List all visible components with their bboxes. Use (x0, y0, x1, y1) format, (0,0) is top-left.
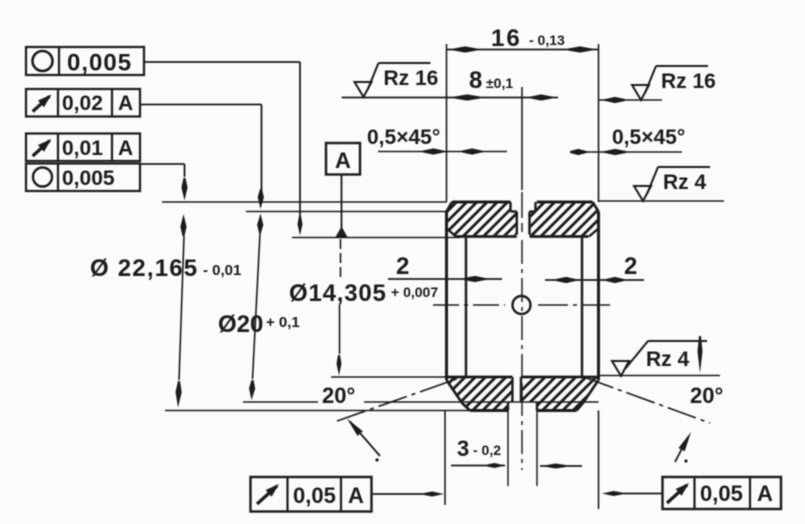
svg-text:2: 2 (624, 253, 637, 280)
svg-text:A: A (118, 137, 133, 160)
svg-text:8: 8 (469, 67, 482, 94)
surface roughness Rz 4 (upper right) (634, 186, 651, 201)
extension line left face (bottom) (444, 411, 446, 506)
leader bottom-right frame (622, 493, 663, 495)
bottom recess walls (507, 402, 509, 411)
vertical centerline (521, 192, 523, 232)
inner wall right x=582 (581, 237, 583, 378)
svg-text:A: A (118, 92, 133, 115)
centre circle (513, 296, 531, 314)
svg-text:20°: 20° (690, 383, 723, 408)
extension line recess bottom y=402 to left (243, 401, 318, 403)
section hatching (383, 185, 637, 245)
inner wall left x=466 (465, 237, 467, 378)
extension line right face (top) (598, 44, 600, 202)
chamfer 0.5x45 top-right (593, 202, 599, 212)
extension line left face (top) (446, 44, 448, 202)
leader F3/F4 joining diameter-22.165 dimension line (141, 163, 185, 165)
bottom face (470, 409, 508, 412)
20deg taper line right (585, 378, 710, 424)
top slot wall left x=516.8 (516, 212, 518, 235)
leader F2 joining diameter-20 dimension line (140, 104, 262, 106)
bore bottom line y=377 (447, 376, 513, 379)
bottom chamfer 20deg right (583, 380, 599, 403)
svg-text:0,05: 0,05 (293, 483, 336, 508)
svg-text:±0,1: ±0,1 (486, 75, 513, 91)
feature control frame bottom-right (runout 0,05 A) (663, 477, 782, 509)
surface roughness Rz 16 (right) (599, 99, 662, 101)
dimension 8 plus-minus 0.1 (342, 97, 558, 99)
svg-text:Rz 4: Rz 4 (646, 348, 690, 371)
svg-text:0,005: 0,005 (67, 50, 132, 77)
extension line slot walls for 3-0.2 (507, 402, 509, 486)
horizontal centerline left (433, 304, 505, 306)
surface roughness Rz 16 (left) (355, 82, 372, 97)
bore entrance chamfer top-left (447, 229, 457, 237)
dimension 16-0.13 (447, 49, 599, 51)
feature control frame F1 (circularity 0,005) (26, 47, 144, 75)
svg-text:+ 0,007: + 0,007 (391, 284, 438, 300)
extension line right face (bottom) (598, 411, 600, 510)
bottom recess floor y=402 across band (447, 401, 599, 403)
top recess wall left x=510.5 (509, 202, 511, 212)
bottom slot walls (511, 377, 513, 402)
feature control frame F3 (runout 0,01 A) (26, 134, 140, 162)
svg-text:0,5×45°: 0,5×45° (612, 126, 685, 149)
top recess wall right x=535.5 (534, 202, 536, 212)
datum A box (326, 143, 360, 175)
datum A leader and triangle (341, 175, 343, 229)
svg-text:+ 0,1: + 0,1 (266, 314, 300, 331)
bore top line y=236.5 (455, 235, 517, 238)
extension line top face y=202 to left (162, 201, 447, 203)
top recess floor y=211.5 (511, 210, 517, 212)
extension line bottom face y=410.5 to left (165, 410, 470, 412)
svg-text:Rz 4: Rz 4 (663, 171, 707, 194)
20deg leader arrow right (675, 437, 688, 462)
svg-text:3: 3 (457, 436, 469, 461)
svg-text:0,5×45°: 0,5×45° (367, 126, 440, 149)
extension line bore top y=236.5 to left (292, 237, 460, 239)
svg-text:Ø14,305: Ø14,305 (289, 280, 387, 307)
svg-text:Rz 16: Rz 16 (661, 70, 716, 93)
svg-text:- 0,01: - 0,01 (203, 262, 241, 279)
part top face left segment (452, 201, 511, 204)
extension line slot centre x=522 (top) (521, 87, 523, 190)
svg-text:0,02: 0,02 (62, 92, 103, 115)
svg-text:A: A (335, 148, 351, 173)
20deg taper line left (337, 379, 458, 422)
right face (597, 212, 600, 381)
top slot wall right x=529.5 (528, 212, 530, 235)
svg-text:- 0,2: - 0,2 (473, 442, 501, 458)
20deg leader arrow left (350, 422, 380, 457)
leader F1 to bore line (144, 61, 300, 63)
svg-text:A: A (348, 483, 364, 508)
surface roughness Rz 4 (lower right) (612, 361, 629, 376)
left face (445, 212, 448, 381)
chamfer 0.5x45 top-left (447, 202, 453, 212)
feature control frame F2 (runout 0,02 A) (26, 89, 140, 117)
svg-text:Rz 16: Rz 16 (384, 67, 439, 90)
extension line bore bottom y=377 to left (331, 376, 447, 378)
extension line recess y=211.5 to left (246, 211, 447, 213)
leader bottom-left frame (372, 493, 429, 495)
svg-text:0,005: 0,005 (62, 167, 115, 190)
bore entrance chamfer top-right (589, 229, 599, 237)
svg-text:2: 2 (396, 253, 409, 280)
svg-text:- 0,13: - 0,13 (529, 32, 565, 48)
horizontal centerline right (538, 304, 610, 306)
extension line bore bottom y=376 to right (Rz4 base) (599, 375, 721, 377)
svg-text:0,01: 0,01 (62, 137, 103, 160)
part top face right segment (537, 201, 593, 204)
svg-text:20°: 20° (322, 383, 355, 408)
svg-text:A: A (757, 481, 773, 506)
bottom chamfer 20deg left (447, 380, 463, 403)
feature control frame bottom-left (runout 0,05 A) (251, 477, 372, 512)
feature control frame F4 (circularity 0,005) (26, 164, 140, 192)
extension line top face y=201 to right (Rz4 base) (599, 200, 725, 202)
svg-text:0,05: 0,05 (700, 481, 743, 506)
svg-text:16: 16 (491, 25, 522, 52)
